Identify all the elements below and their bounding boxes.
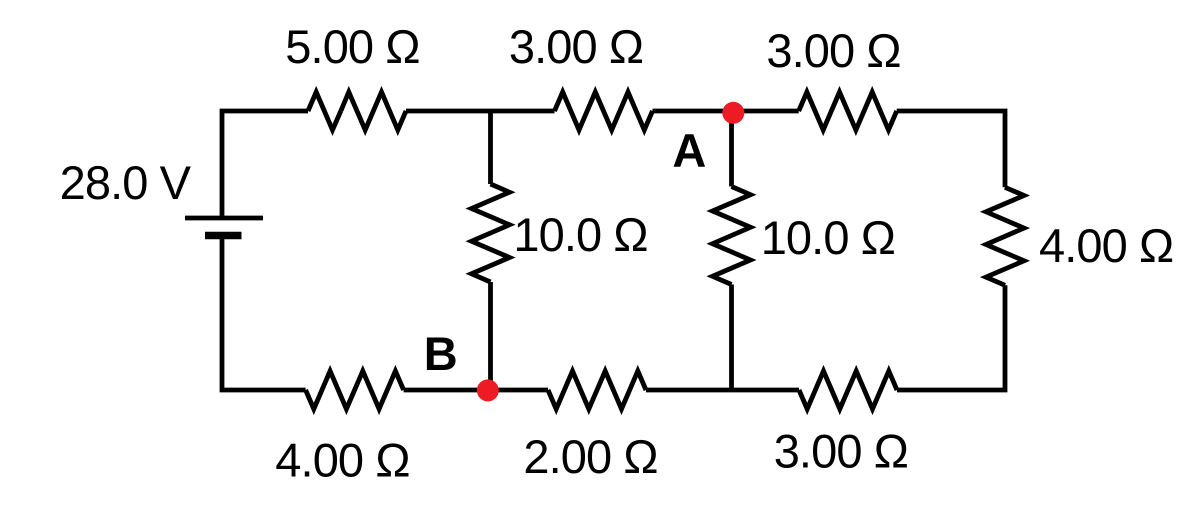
- wire top-left corner segment: [222, 111, 308, 218]
- svg-text:3.00 Ω: 3.00 Ω: [766, 24, 900, 77]
- battery V1 long plate (positive): [185, 216, 263, 221]
- wire branch1 upper: [488, 111, 493, 184]
- wire bottom between R4 and node B: [404, 388, 488, 393]
- svg-text:10.0 Ω: 10.0 Ω: [761, 211, 895, 264]
- node A red junction dot: [722, 102, 744, 124]
- svg-text:3.00 Ω: 3.00 Ω: [774, 425, 908, 478]
- resistor R7 10.0 ohm (left vertical branch): [472, 184, 510, 282]
- wire top between R1 and node junction1: [406, 109, 555, 114]
- wire right-bottom corner segment: [897, 285, 1005, 390]
- wire top between R2 and node A: [653, 109, 799, 114]
- node B red junction dot: [477, 379, 499, 401]
- resistor R1 5.00 ohm (top left): [308, 92, 341, 130]
- resistor R3 3.00 ohm (top right): [799, 92, 897, 130]
- wire bottom between R5 and branch2: [646, 388, 732, 393]
- wire bottom between node B and R5: [488, 388, 548, 393]
- svg-text:4.00 Ω: 4.00 Ω: [275, 434, 409, 487]
- wire branch1 lower: [488, 282, 493, 390]
- wire bottom between branch2 and R6: [732, 388, 800, 393]
- battery V1 short plate (negative): [205, 232, 242, 240]
- wire branch2 lower: [729, 285, 734, 391]
- resistor R2 3.00 ohm (top middle): [555, 92, 653, 130]
- resistor R6 3.00 ohm (bottom right): [799, 371, 897, 409]
- svg-text:10.0 Ω: 10.0 Ω: [513, 208, 647, 261]
- svg-text:B: B: [424, 327, 458, 380]
- svg-text:4.00 Ω: 4.00 Ω: [1039, 219, 1173, 272]
- svg-text:A: A: [672, 124, 706, 177]
- svg-text:5.00 Ω: 5.00 Ω: [285, 20, 419, 73]
- wire bottom-left corner segment: [222, 236, 306, 391]
- svg-text:2.00 Ω: 2.00 Ω: [523, 430, 657, 483]
- resistor R5 2.00 ohm (bottom middle): [548, 371, 646, 409]
- wire branch2 upper: [729, 111, 734, 187]
- resistor R8 10.0 ohm (right vertical branch): [713, 187, 751, 285]
- resistor R4 4.00 ohm (bottom left): [306, 371, 404, 409]
- wire top-right corner segment: [897, 111, 1005, 187]
- svg-text:28.0 V: 28.0 V: [60, 156, 192, 209]
- resistor R9 4.00 ohm (right vertical): [986, 187, 1024, 285]
- svg-text:3.00 Ω: 3.00 Ω: [509, 20, 643, 73]
